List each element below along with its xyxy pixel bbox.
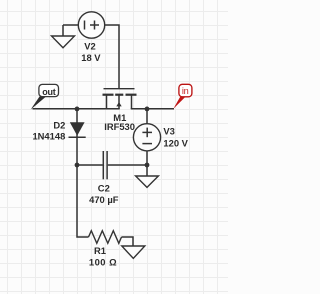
svg-text:C2: C2	[98, 183, 110, 194]
svg-text:100 Ω: 100 Ω	[89, 257, 117, 268]
svg-text:V3: V3	[163, 125, 174, 136]
svg-text:R1: R1	[94, 245, 106, 256]
svg-text:out: out	[42, 87, 56, 97]
svg-text:470 µF: 470 µF	[89, 194, 119, 205]
svg-text:D2: D2	[53, 120, 65, 131]
svg-text:V2: V2	[84, 41, 95, 52]
svg-text:1N4148: 1N4148	[32, 130, 65, 141]
svg-text:18 V: 18 V	[81, 52, 101, 63]
svg-text:IRF530: IRF530	[104, 121, 135, 132]
svg-text:in: in	[182, 86, 189, 96]
svg-text:120 V: 120 V	[163, 137, 188, 148]
